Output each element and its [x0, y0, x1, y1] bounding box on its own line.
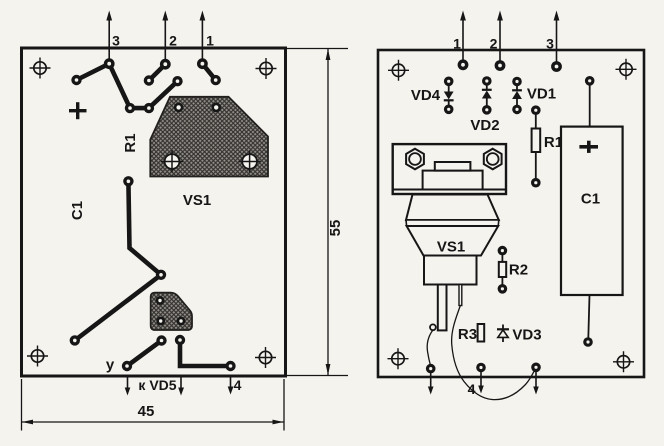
pin 3 arrow (left board) [106, 11, 112, 64]
VS1 pour pad right [211, 103, 221, 113]
svg-text:VD4: VD4 [411, 87, 441, 104]
mounting hole right-board bottom-right [613, 351, 634, 372]
svg-text:R3: R3 [458, 326, 477, 343]
svg-text:R1: R1 [122, 133, 139, 152]
plus polarity mark (left board) [69, 102, 87, 119]
pin 4 arrow (right board) [478, 372, 484, 394]
bottom arrow right (right board) [533, 372, 539, 395]
wire trace junction up to VS1 anode pad [149, 81, 178, 108]
diode VD1 [512, 77, 522, 115]
resistor R2 [498, 246, 508, 294]
junction pad right [144, 103, 154, 113]
resistor R1 (right board) [531, 105, 541, 187]
svg-text:2: 2 [490, 36, 498, 52]
VS1 pour screw hole left [161, 151, 183, 173]
wire trace pad 1 diagonal [202, 64, 215, 80]
bottom arrow left (right board) [428, 373, 434, 395]
VS1 mounting bracket [393, 144, 506, 194]
pin 1 arrow (left board) [200, 11, 206, 64]
svg-text:к VD5: к VD5 [138, 377, 176, 393]
pad pin3 [551, 61, 562, 72]
diode VD4 [444, 77, 454, 115]
pad above pour left [172, 76, 182, 86]
left PCB outline [22, 48, 286, 376]
wire trace pad 2 diagonal [149, 64, 165, 80]
mounting hole right-board top-right [616, 59, 637, 80]
svg-text:R2: R2 [509, 262, 528, 279]
wire trace pad A to pad 3 [77, 64, 110, 80]
right PCB outline [378, 50, 644, 377]
diode VD3 symbol [497, 325, 509, 343]
svg-text:45: 45 [138, 403, 155, 420]
bracket nut right [484, 149, 502, 170]
svg-text:C1: C1 [69, 201, 86, 220]
bottom pad left (right board) [426, 364, 436, 374]
wire control lead to pad 3 (long curve) [452, 306, 535, 400]
svg-text:55: 55 [327, 220, 344, 237]
dimension 55 [286, 49, 348, 376]
thyristor VS1 top cone [406, 195, 499, 221]
pad 4 (left board) [225, 361, 235, 371]
pad R1 top [123, 176, 133, 186]
svg-text:VS1: VS1 [183, 192, 211, 209]
bottom pad right (right board) [531, 363, 541, 373]
svg-text:VD1: VD1 [527, 86, 556, 103]
triangle pour pad bottom-left [156, 317, 165, 326]
wire trace C1 zigzag [75, 181, 161, 340]
pad 2 [160, 59, 171, 70]
diode VD2 [482, 76, 492, 114]
VS1 pour screw hole right [239, 151, 261, 173]
pin 2 arrow (left board) [162, 11, 168, 65]
thyristor body on bracket [423, 162, 483, 190]
svg-text:3: 3 [546, 36, 554, 52]
wire trace у diagonal [127, 341, 162, 367]
mounting hole right-board bottom-left [388, 348, 409, 369]
triangle pour pad bottom-right [177, 317, 186, 326]
wire trace to pad 4 L-shape [180, 340, 231, 366]
pad A [71, 75, 81, 85]
C1 plus mark [579, 141, 598, 153]
svg-text:4: 4 [234, 377, 242, 393]
thyristor VS1 lower cone [407, 226, 499, 256]
mounting hole bottom-right [255, 347, 276, 368]
capacitor C1 (right board) [561, 76, 623, 347]
svg-text:4: 4 [468, 381, 476, 397]
VS1 copper pour (hatched) [150, 97, 268, 177]
pad у [122, 361, 132, 371]
triangle pour pad top [156, 296, 165, 305]
VS1 anode lead [438, 285, 447, 331]
pad C1 end [70, 335, 80, 345]
к VD5 arrow right [178, 376, 184, 396]
pin 1 arrow (right board) [460, 11, 466, 65]
mounting hole bottom-left [27, 346, 48, 367]
pin 2 arrow (right board) [497, 11, 503, 66]
pad pin2 [495, 60, 506, 71]
svg-text:у: у [106, 357, 115, 374]
svg-text:VD3: VD3 [512, 327, 541, 344]
wire trace junction horizontal [130, 106, 149, 111]
thyristor VS1 base [424, 256, 477, 285]
VS1 pour pad left [174, 103, 184, 113]
pad C1 bend [156, 270, 166, 280]
svg-text:1: 1 [206, 33, 214, 49]
pad pin1 [458, 59, 469, 70]
mounting hole top-left [30, 58, 51, 79]
wire anode lead to pad [427, 330, 433, 366]
VS1 control lead [459, 285, 462, 306]
svg-text:2: 2 [169, 33, 177, 49]
dimension 45 [22, 379, 285, 431]
bottom pad 4 (right board) [476, 363, 486, 373]
pad under triangle right [175, 335, 185, 345]
VS1 lead hole [430, 324, 436, 330]
small copper pour (triangle, hatched) [151, 293, 192, 330]
resistor R3 body [478, 324, 485, 342]
svg-text:VS1: VS1 [437, 239, 465, 256]
thyristor VS1 rim band [406, 220, 499, 226]
svg-text:1: 1 [453, 36, 461, 52]
pin 4 arrow (left board) [228, 376, 234, 395]
pad 3 [104, 58, 115, 69]
junction pad left [125, 103, 135, 113]
mounting hole right-board top-left [388, 60, 409, 81]
pad 2 lower [144, 75, 154, 85]
svg-text:VD2: VD2 [470, 117, 499, 134]
pad under triangle left [156, 335, 166, 345]
к VD5 arrow left [125, 376, 131, 396]
pad 1 [197, 58, 208, 69]
svg-text:3: 3 [112, 33, 120, 49]
wire trace pad 3 down to junction [109, 64, 130, 108]
bracket nut left [406, 149, 424, 170]
pad above pour right [211, 75, 221, 85]
svg-text:C1: C1 [581, 191, 600, 208]
pin 3 arrow (right board) [554, 11, 560, 67]
mounting hole top-right [256, 58, 277, 79]
